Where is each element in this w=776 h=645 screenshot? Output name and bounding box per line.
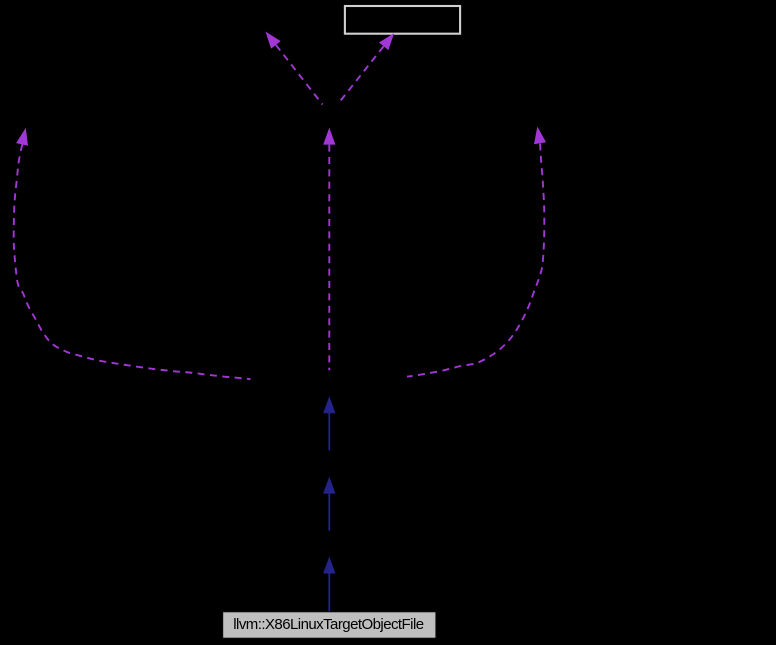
svg-text:llvm::X86LinuxTargetObjectFile: llvm::X86LinuxTargetObjectFile	[233, 616, 423, 633]
arrowhead: left curve purple	[16, 128, 28, 146]
edge: long dashed usage arrow curving up the right side	[407, 144, 544, 377]
edge: dashed usage arrow up-left from hidden node	[276, 45, 323, 105]
edge: dashed usage arrow up-right to visible box	[338, 46, 384, 104]
arrowhead: vertical purple	[323, 128, 335, 145]
edge: solid inheritance arrow 2 (bottom chain)	[328, 493, 330, 530]
edge: solid inheritance arrow 1 (bottom chain)	[328, 413, 330, 451]
node: llvm::X86LinuxTargetObjectFile (main, grey filled)	[223, 612, 436, 639]
node: top class box (visible border)	[345, 6, 460, 34]
arrowhead: right curve purple	[534, 127, 546, 145]
arrowhead: inheritance blue 2	[323, 477, 335, 494]
arrowhead: up-right purple	[379, 33, 394, 50]
arrowhead: inheritance blue 1	[323, 396, 335, 413]
edge: vertical dashed usage arrow (center)	[328, 145, 330, 371]
edge: solid inheritance arrow 3 (bottom chain)	[328, 573, 330, 611]
arrowhead: inheritance blue 3	[323, 557, 335, 574]
arrowhead: up-left purple	[265, 32, 280, 49]
edge: long dashed usage arrow curving up the left side	[14, 144, 251, 379]
